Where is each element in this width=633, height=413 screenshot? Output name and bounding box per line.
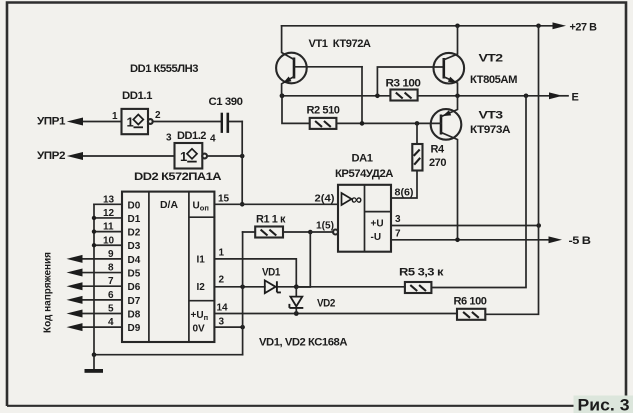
wire VT1 base down to R2 output line xyxy=(361,67,363,124)
node junction bus D2 xyxy=(92,229,96,233)
node junction DD1.2 output xyxy=(240,154,245,159)
node junction VT3 collector on -5V line xyxy=(455,238,460,243)
arrow input D6 xyxy=(67,282,83,290)
wire УПР1 input xyxy=(82,121,122,123)
wire 0V pin3 xyxy=(214,326,242,328)
logic inverter DD1.2 xyxy=(175,143,208,169)
wire I1 pin1 xyxy=(214,259,296,287)
svg-text:C1 390: C1 390 xyxy=(209,96,243,108)
svg-text:2(4): 2(4) xyxy=(315,194,335,205)
svg-text:3: 3 xyxy=(219,317,225,328)
wire C1 node down to Uоп line xyxy=(241,122,243,205)
svg-text:R1 1 к: R1 1 к xyxy=(256,214,286,226)
svg-text:4: 4 xyxy=(210,134,216,145)
svg-text:VD2: VD2 xyxy=(317,298,335,310)
arrow input D5 xyxy=(67,269,83,277)
svg-text:D0: D0 xyxy=(128,200,141,211)
wire R2 output to VT3 base xyxy=(336,122,441,124)
wire I2 pin2 / VD1 line xyxy=(214,286,405,288)
svg-text:1: 1 xyxy=(219,248,225,259)
svg-text:D8: D8 xyxy=(128,310,141,321)
node junction VT2 emitter xyxy=(455,94,460,99)
svg-text:DD2 К572ПА1А: DD2 К572ПА1А xyxy=(134,171,222,183)
svg-text:VT2: VT2 xyxy=(479,53,503,65)
svg-text:I1: I1 xyxy=(197,255,206,266)
node junction R5 tap on E line xyxy=(524,94,529,99)
svg-text:DD1 К555ЛН3: DD1 К555ЛН3 xyxy=(130,63,198,75)
svg-text:2: 2 xyxy=(155,110,161,121)
wire D8 row xyxy=(81,313,122,315)
svg-text:14: 14 xyxy=(217,303,229,314)
svg-text:7: 7 xyxy=(395,229,401,240)
wire D7 row xyxy=(81,299,122,301)
resistor R2 xyxy=(310,118,337,129)
wire E line (emitter rail) xyxy=(282,95,551,97)
arrow input D8 xyxy=(67,310,83,318)
node junction VD2 bottom xyxy=(294,311,299,316)
svg-text:1(5): 1(5) xyxy=(316,221,334,232)
node junction R1 bias vertical top of I2 line xyxy=(240,285,245,290)
svg-text:VT3: VT3 xyxy=(479,110,503,122)
resistor R6 xyxy=(457,309,485,320)
wire +27V top rail xyxy=(282,25,554,27)
logic inverter DD1.1 xyxy=(122,109,153,134)
ground symbol xyxy=(85,355,104,373)
wire D3 row xyxy=(94,244,122,246)
wire E vertical down to R5 xyxy=(431,96,526,288)
svg-text:-5 В: -5 В xyxy=(569,235,592,247)
svg-text:1: 1 xyxy=(180,149,187,164)
svg-text:1: 1 xyxy=(127,115,134,130)
wire ground return line xyxy=(94,354,243,356)
svg-text:DD1.2: DD1.2 xyxy=(177,130,206,142)
capacitor C1 xyxy=(153,113,243,133)
resistor R4 xyxy=(391,123,423,198)
wire +Uп pin14 line to R6 xyxy=(214,313,457,315)
svg-text:D/A: D/A xyxy=(160,200,178,211)
svg-text:Код напряжения: Код напряжения xyxy=(43,252,54,333)
wire ground net vertical (R1 left / 0V / ground) xyxy=(242,232,244,355)
svg-text:+U: +U xyxy=(371,219,384,230)
svg-text:R5 3,3 к: R5 3,3 к xyxy=(399,267,444,279)
svg-text:-U: -U xyxy=(371,232,382,243)
svg-text:VD1: VD1 xyxy=(262,267,280,279)
wire D0 row xyxy=(94,203,122,205)
node junction inverting input node xyxy=(308,230,313,235)
svg-text:Рис. 3: Рис. 3 xyxy=(578,397,630,413)
node junction VT2 collector on +27V rail xyxy=(455,24,460,29)
wire +U pin3 to +27V drop xyxy=(391,225,539,227)
transistor VT3 xyxy=(431,96,462,240)
resistor R3 xyxy=(390,90,417,101)
transistor VT1 xyxy=(276,26,362,96)
svg-text:D9: D9 xyxy=(128,323,141,334)
wire Uоп pin15 to DA1 input 2(4) xyxy=(214,203,338,205)
svg-text:∞: ∞ xyxy=(351,192,362,209)
wire D6 row xyxy=(81,285,122,287)
node junction VT1 emitter xyxy=(280,93,285,98)
svg-text:3: 3 xyxy=(166,133,172,144)
wire УПР2 input xyxy=(82,155,175,157)
svg-text:VT1 КТ972А: VT1 КТ972А xyxy=(309,38,372,50)
svg-text:D7: D7 xyxy=(128,296,141,307)
svg-text:R2 510: R2 510 xyxy=(307,105,340,117)
node junction bus D3 xyxy=(92,243,96,247)
svg-text:D3: D3 xyxy=(128,241,141,252)
wire D4 row xyxy=(81,258,122,260)
svg-text:Uоп: Uоп xyxy=(193,201,209,213)
svg-text:I2: I2 xyxy=(197,282,206,293)
arrow output +27 V xyxy=(553,22,567,29)
svg-text:1: 1 xyxy=(112,111,118,122)
svg-text:D5: D5 xyxy=(128,269,141,280)
svg-text:+Uп: +Uп xyxy=(191,310,209,322)
arrow output -5 В xyxy=(549,236,563,243)
node junction +U supply tap on +27V rail xyxy=(536,24,541,29)
svg-text:2: 2 xyxy=(219,275,225,286)
svg-text:DA1: DA1 xyxy=(352,153,373,165)
svg-text:0V: 0V xyxy=(193,324,206,335)
transistor VT2 xyxy=(434,26,465,96)
wire -U pin7 to -5V output xyxy=(391,239,550,241)
node junction Uоп line xyxy=(240,202,245,207)
svg-text:270: 270 xyxy=(429,157,446,169)
svg-text:DD1.1: DD1.1 xyxy=(122,90,152,102)
wire D0-D3 ground bus xyxy=(93,204,95,354)
wire VT2 base riser xyxy=(377,67,443,96)
svg-text:УПР1: УПР1 xyxy=(37,116,65,128)
op-amp DA1 xyxy=(333,185,391,252)
svg-text:R3 100: R3 100 xyxy=(386,78,421,90)
node junction ground xyxy=(92,352,97,357)
resistor R1 xyxy=(243,227,311,238)
arrow input D7 xyxy=(67,296,83,304)
svg-text:D2: D2 xyxy=(128,228,141,239)
DAC DD2 К572ПА1А xyxy=(122,192,214,342)
svg-text:D1: D1 xyxy=(128,214,141,225)
svg-text:Е: Е xyxy=(572,92,579,104)
svg-text:КР574УД2А: КР574УД2А xyxy=(335,168,394,180)
wire DD1.2 output to C1 node xyxy=(207,155,242,157)
node junction 0V xyxy=(240,325,245,330)
wire VT1 emitter to R2 xyxy=(282,96,310,124)
svg-text:8(6): 8(6) xyxy=(395,188,414,199)
svg-text:VD1, VD2 КС168А: VD1, VD2 КС168А xyxy=(259,337,348,349)
wire D9 row xyxy=(81,326,122,328)
node junction bus D1 xyxy=(92,216,96,220)
svg-text:3: 3 xyxy=(395,214,401,225)
wire feedback vertical from inverting input xyxy=(296,232,310,287)
node junction VT1 base / R2 xyxy=(360,121,365,126)
diode VD2 xyxy=(289,287,303,314)
svg-text:15: 15 xyxy=(218,194,230,205)
wire D2 row xyxy=(94,231,122,233)
arrow input УПР1 xyxy=(67,118,83,126)
svg-text:D4: D4 xyxy=(128,255,141,266)
svg-text:+27 В: +27 В xyxy=(570,22,597,34)
wire to DA1 inverting input xyxy=(310,231,333,233)
resistor R5 xyxy=(405,282,432,293)
node junction VT2 base tap xyxy=(375,94,380,99)
figure caption Рис. 3 xyxy=(574,396,633,413)
svg-text:КТ973А: КТ973А xyxy=(470,124,511,136)
wire +27V vertical down to R6 xyxy=(485,26,538,315)
wire D5 row xyxy=(81,272,122,274)
node junction R4 top xyxy=(415,121,420,126)
arrow input УПР2 xyxy=(67,152,83,160)
wire D1 row xyxy=(94,217,122,219)
arrow input D4 xyxy=(67,255,83,263)
arrow output E xyxy=(549,92,563,99)
svg-text:D6: D6 xyxy=(128,282,141,293)
node junction +U / +27V vertical xyxy=(536,223,541,228)
node junction VD node xyxy=(294,284,299,289)
svg-text:КТ805АМ: КТ805АМ xyxy=(470,74,517,86)
svg-text:R6 100: R6 100 xyxy=(454,296,487,308)
diode VD1 xyxy=(265,280,281,293)
svg-text:УПР2: УПР2 xyxy=(37,150,65,162)
arrow input D9 xyxy=(67,323,83,331)
svg-text:R4: R4 xyxy=(431,144,445,156)
